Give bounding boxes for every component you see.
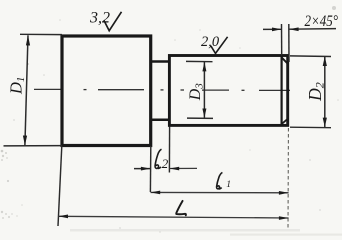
svg-text:2,0: 2,0 <box>201 34 220 50</box>
scan noise left edge mid <box>1 150 8 161</box>
dimension l2 label script l <box>155 149 161 168</box>
dimension D2 top extension line <box>290 55 331 58</box>
dimension L right extension line (dashed) <box>287 128 289 230</box>
dimension L arrow pointing right <box>279 216 289 220</box>
chamfer edge line <box>281 56 283 126</box>
chamfer arrow pointing left <box>289 27 299 31</box>
dimension D3 label <box>187 83 206 102</box>
svg-text:1: 1 <box>226 180 231 190</box>
dimension l1 arrow pointing right <box>279 191 289 195</box>
dimension D2 line <box>324 56 326 127</box>
scan noise top right dot <box>332 6 336 10</box>
shaft groove neck bottom line <box>151 119 170 122</box>
dimension D3 top extension line <box>186 60 213 62</box>
dimension l2 line right tail <box>170 167 198 169</box>
dimension l1 label script l <box>217 172 223 189</box>
dimension L label <box>176 201 186 215</box>
chamfer dimension line right part <box>289 28 336 31</box>
scan noise bottom band right <box>230 234 342 236</box>
roughness mark 3,2 tick <box>104 12 122 31</box>
dimension D3 arrow down <box>202 109 206 118</box>
svg-text:2: 2 <box>162 156 169 171</box>
chamfer dimension line left part <box>263 28 282 30</box>
dimension L arrow pointing left <box>58 215 68 219</box>
dimension D1 arrow up <box>26 35 30 45</box>
dimension D3 arrow up <box>202 62 206 71</box>
dimension D2 arrow down <box>323 118 327 128</box>
chamfer bottom diagonal <box>281 118 288 124</box>
dimension D1 arrow down <box>23 136 27 146</box>
dimension D2 label <box>305 82 327 102</box>
shaft groove neck top line <box>151 60 170 63</box>
dimension D1 top extension line <box>20 33 62 35</box>
shaft large cylinder <box>62 36 151 146</box>
svg-text:2×45°: 2×45° <box>305 13 339 30</box>
dimension D1 bottom extension line <box>4 145 63 147</box>
dimension l2 arrow pointing left <box>170 167 180 171</box>
dimension D3 bottom extension line <box>187 117 213 119</box>
dimension l2 arrow pointing right <box>141 167 151 171</box>
dimension l1 arrow pointing left <box>151 191 161 195</box>
dimension D1 line <box>25 35 28 145</box>
dimension l1 line <box>151 191 289 193</box>
centerline (dash-dot axis) <box>34 89 290 90</box>
dimension l2 right extension line <box>168 127 170 173</box>
dimension D2 bottom extension line <box>290 126 331 129</box>
roughness mark 2,0 tick <box>211 37 228 54</box>
shaft small cylinder <box>169 56 287 126</box>
chamfer dimension right extension line <box>288 24 290 62</box>
dimension l2 line left tail <box>134 168 151 170</box>
dimension L left extension line <box>58 146 62 226</box>
chamfer arrow pointing right <box>272 28 282 32</box>
scan noise faint streak below L line <box>70 229 300 232</box>
dimension L line <box>58 216 288 218</box>
chamfer top diagonal <box>281 57 288 64</box>
dimension D2 arrow up <box>323 56 327 66</box>
dimension D3 line <box>203 62 205 118</box>
scan noise left edge lower <box>1 211 18 219</box>
dimension l2 left extension line (shoulder) <box>149 146 151 192</box>
chamfer dimension left extension line <box>281 24 283 56</box>
svg-text:3,2: 3,2 <box>89 10 110 27</box>
dimension D1 label <box>7 77 28 95</box>
